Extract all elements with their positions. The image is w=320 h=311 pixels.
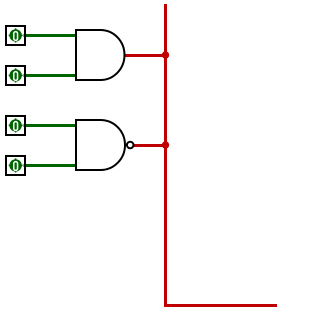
NAND gate U2 [76,120,134,170]
input pin P3 (value 0) [6,116,25,135]
input pin P1 (value 0) [6,26,25,45]
wire: red error-value wire from NAND gate U2 output bubble to bus [135,144,166,147]
input pin P4 (value 0) [6,156,25,175]
wire: red error-value wire from AND gate U1 output to bus [125,54,166,57]
NAND gate U2 inversion bubble [127,142,134,149]
wire: green input wire from pin P3 to NAND gate U2 upper input [25,124,75,127]
wire: green input wire from pin P4 to NAND gate U2 lower input [25,164,75,167]
input pin P2 (value 0) [6,66,25,85]
node: junction of NAND gate U2 output with bus [162,141,169,148]
wire: green input wire from pin P2 to AND gate U1 lower input [25,74,75,77]
wire: red vertical bus segment and bottom horizontal segment [166,4,278,306]
wire: green input wire from pin P1 to AND gate U1 upper input [25,34,75,37]
node: junction of AND gate U1 output with bus [162,51,169,58]
AND gate U1 [76,30,124,80]
